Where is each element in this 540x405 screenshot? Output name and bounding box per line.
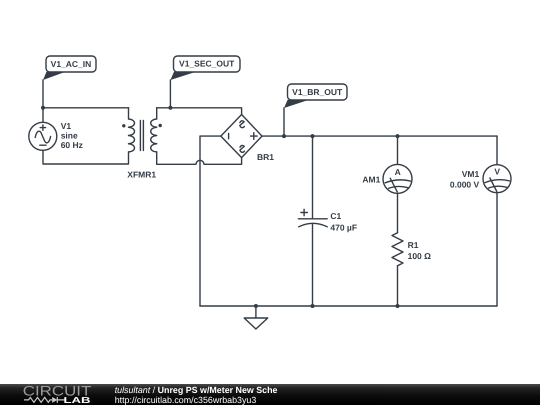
wire R1 bottom xyxy=(397,266,399,306)
svg-text:0.000 V: 0.000 V xyxy=(450,180,480,190)
svg-text:100 Ω: 100 Ω xyxy=(408,251,432,261)
svg-text:V1_AC_IN: V1_AC_IN xyxy=(51,59,92,69)
wire bridge minus down left rail xyxy=(200,136,221,306)
transformer XFMR1 xyxy=(129,108,157,152)
wire V1 bottom loop xyxy=(43,150,129,164)
svg-text:LAB: LAB xyxy=(64,395,91,405)
resistor R1 xyxy=(392,233,403,266)
svg-text:BR1: BR1 xyxy=(257,152,274,162)
phase dot primary xyxy=(122,124,125,127)
wire secondary top to bridge xyxy=(157,108,242,115)
svg-text:VM1: VM1 xyxy=(462,169,480,179)
svg-text:AM1: AM1 xyxy=(362,174,380,184)
node junction ground xyxy=(254,304,258,308)
CircuitLab logo xyxy=(0,384,110,405)
ammeter AM1 xyxy=(383,164,412,193)
phase dot secondary xyxy=(159,124,162,127)
node junction V1_SEC_OUT xyxy=(168,106,172,110)
footer bar xyxy=(0,384,540,405)
wire AM1 branch top xyxy=(397,136,399,164)
bridge rectifier BR1 xyxy=(221,115,262,158)
svg-text:XFMR1: XFMR1 xyxy=(127,170,156,180)
net flag V1_AC_IN xyxy=(43,56,96,80)
svg-text:V: V xyxy=(494,167,500,177)
svg-text:V1_SEC_OUT: V1_SEC_OUT xyxy=(179,59,235,69)
wire V1 flag drop xyxy=(42,80,44,122)
wire AM1 to R1 xyxy=(397,193,399,232)
svg-text:R1: R1 xyxy=(408,240,419,250)
capacitor C1 xyxy=(298,209,327,227)
wire C1 branch bottom xyxy=(312,224,314,306)
wire bottom rail xyxy=(200,305,497,307)
svg-text:60 Hz: 60 Hz xyxy=(61,140,83,150)
net flag V1_SEC_OUT xyxy=(170,56,240,80)
node junction V1 top xyxy=(41,106,45,110)
wire V1_BR_OUT flag drop xyxy=(283,108,285,136)
svg-text:V1_BR_OUT: V1_BR_OUT xyxy=(292,87,343,97)
voltage source V1 xyxy=(29,122,57,150)
net flag V1_BR_OUT xyxy=(284,84,347,108)
svg-text:C1: C1 xyxy=(330,211,341,221)
voltmeter VM1 xyxy=(483,165,511,193)
node junction C1 top xyxy=(311,134,315,138)
svg-text:470 µF: 470 µF xyxy=(330,223,357,233)
node junction AM1 top xyxy=(396,134,400,138)
wire VM1 branch xyxy=(496,136,498,165)
node junction V1_BR_OUT xyxy=(282,134,286,138)
ground xyxy=(244,306,268,329)
wire C1 branch top xyxy=(312,136,314,219)
node junction R1 bottom xyxy=(396,304,400,308)
wire secondary bottom to bridge with hop xyxy=(157,152,242,164)
wire V1_SEC_OUT flag drop xyxy=(169,80,171,108)
wire VM1 bottom xyxy=(496,193,498,306)
wire bridge plus output rail xyxy=(262,135,497,137)
svg-text:A: A xyxy=(395,167,401,177)
node junction C1 bottom xyxy=(311,304,315,308)
wire top-left horizontal V1 to XFMR1 xyxy=(43,107,129,109)
